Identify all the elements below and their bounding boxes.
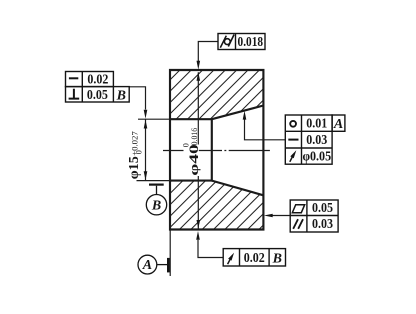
feature control frame: straightness 0.02 / perpendicularity 0.05 B (66, 72, 130, 104)
svg-text:A: A (333, 117, 343, 132)
svg-text:φ15: φ15 (126, 156, 141, 179)
straightness symbol (288, 139, 298, 141)
svg-text:0.03: 0.03 (306, 133, 327, 148)
svg-text:φ0.05: φ0.05 (303, 150, 332, 165)
svg-text:B: B (151, 199, 161, 214)
straightness symbol (69, 77, 78, 79)
extension lines of phi15 dimension (137, 119, 171, 180)
leader from circularity frame to cone surface (243, 111, 286, 140)
svg-text:φ40: φ40 (187, 144, 201, 176)
svg-text:0.03: 0.03 (312, 217, 333, 232)
section hatching lower half (0, 38, 416, 262)
conical bore upper line (212, 106, 264, 120)
leader from runout frame to bottom surface (196, 231, 223, 258)
feature control frame: circularity 0.01 A / straightness 0.03 / runout phi0.05 (285, 115, 345, 165)
svg-text:0.02: 0.02 (244, 251, 265, 266)
dimension line phi40 with arrows (197, 72, 201, 229)
feature control frame: flatness 0.05 / parallelism 0.03 (290, 200, 338, 232)
parallelism symbol (293, 219, 303, 229)
circular runout symbol (228, 253, 235, 265)
dimension line phi15 with arrows (144, 119, 148, 180)
svg-text:0.05: 0.05 (87, 88, 108, 103)
svg-text:A: A (142, 258, 152, 273)
circular runout symbol (290, 150, 297, 162)
svg-text:-0.016: -0.016 (190, 128, 199, 148)
circularity symbol (290, 121, 296, 127)
dimension text phi15 +0.027/0 (126, 131, 144, 179)
feature control frame: cylindricity 0.018 (218, 34, 265, 51)
section hatching upper half (0, 38, 416, 262)
dimension text phi40 0/-0.016 (181, 128, 201, 176)
cylindricity symbol (220, 35, 234, 48)
svg-text:0.01: 0.01 (306, 117, 327, 132)
svg-text:0: 0 (135, 150, 144, 154)
svg-text:0.018: 0.018 (238, 35, 264, 50)
datum A symbol on left end face (138, 230, 170, 277)
conical bore lower line (212, 181, 264, 196)
leader from cylindricity frame to top surface (197, 42, 219, 70)
bore phi15 walls and step edge (170, 119, 212, 180)
svg-text:0.05: 0.05 (312, 201, 333, 216)
svg-text:0: 0 (181, 143, 190, 147)
part outer outline (phi40 cylinder section) (170, 70, 263, 230)
datum B symbol on phi15 bore (146, 184, 166, 215)
flatness symbol (292, 205, 304, 213)
leader from flatness frame to right end face (264, 214, 290, 218)
perpendicularity symbol (69, 89, 80, 99)
leader from perpendicularity frame to phi15 axis (129, 87, 147, 119)
svg-text:B: B (272, 252, 282, 267)
axis centerline (163, 150, 270, 152)
svg-text:B: B (116, 89, 126, 104)
feature control frame: circular runout 0.02 B (223, 249, 285, 267)
svg-text:0.02: 0.02 (87, 73, 108, 88)
